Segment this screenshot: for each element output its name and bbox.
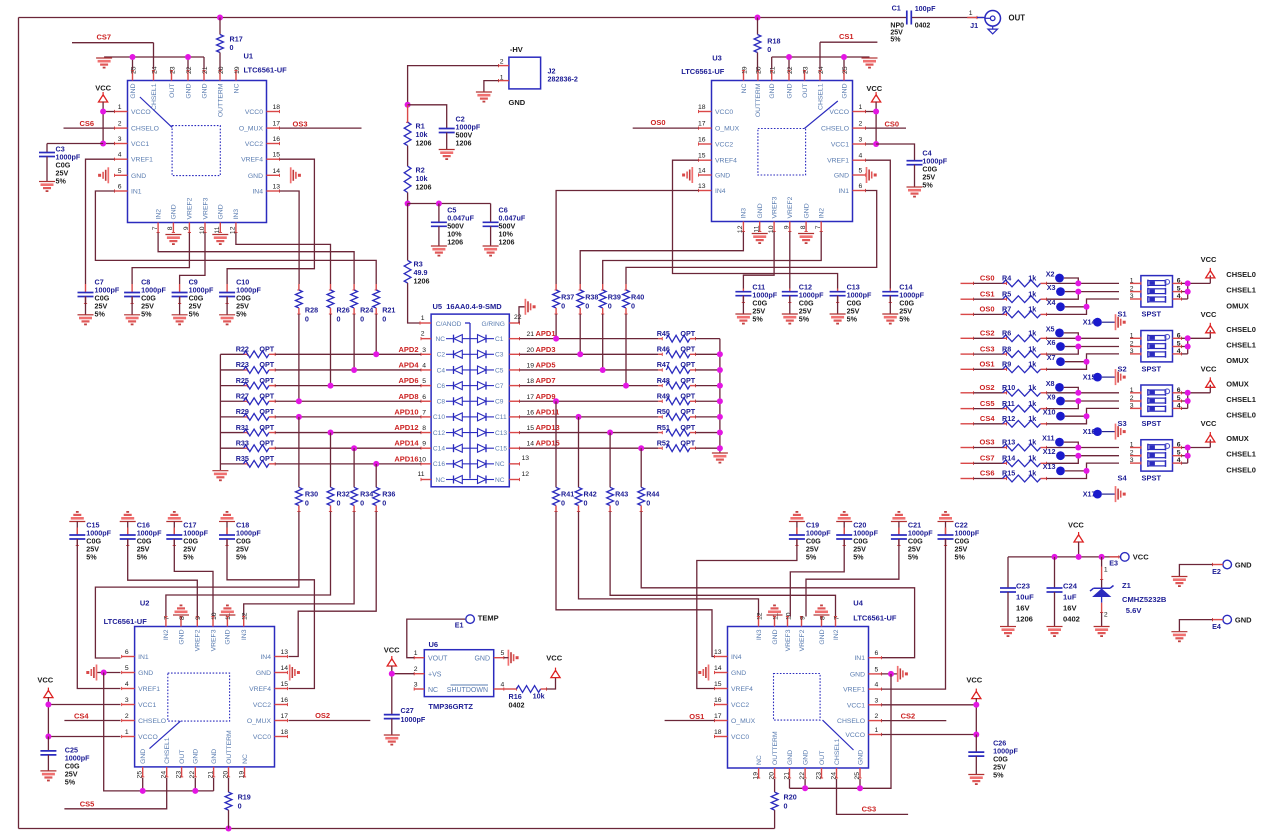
svg-text:22: 22 (186, 66, 193, 74)
svg-text:CHSEL0: CHSEL0 (1226, 465, 1256, 474)
wire U3 IN3 to R38 (580, 232, 743, 285)
svg-text:R43: R43 (615, 490, 628, 499)
svg-text:15: 15 (281, 681, 289, 688)
resistor R4 1k (961, 282, 974, 284)
svg-text:X13: X13 (1043, 462, 1056, 471)
wire U1 IN4 to R28 (280, 191, 300, 284)
svg-text:R34: R34 (360, 490, 373, 499)
svg-text:19: 19 (527, 362, 535, 369)
capacitor C25 (47, 737, 49, 751)
resistor R36 (373, 487, 380, 505)
svg-text:IN4: IN4 (731, 654, 742, 661)
svg-text:OUT: OUT (819, 751, 826, 765)
node junction bus APD11 (717, 414, 723, 420)
svg-text:18: 18 (698, 104, 706, 111)
svg-text:IN4: IN4 (260, 654, 271, 661)
svg-text:SPST: SPST (1142, 364, 1162, 373)
resistor R3 (407, 204, 409, 261)
svg-text:21: 21 (527, 331, 535, 338)
svg-text:CHSEL0: CHSEL0 (1226, 411, 1256, 420)
node junction U1 pin3 (100, 141, 106, 147)
svg-text:VCC0: VCC0 (715, 109, 733, 116)
resistor R33 OPT (220, 447, 243, 449)
svg-text:1k: 1k (1028, 469, 1036, 478)
svg-text:15: 15 (527, 425, 535, 432)
ground U2 pin8 (173, 614, 189, 616)
svg-text:2: 2 (118, 121, 122, 128)
svg-text:24: 24 (151, 66, 158, 74)
svg-text:GND: GND (834, 173, 849, 180)
svg-text:TMP36GRTZ: TMP36GRTZ (428, 702, 473, 711)
svg-text:IN2: IN2 (819, 208, 826, 219)
svg-text:R51: R51 (657, 423, 670, 432)
node junction APD5 (600, 367, 606, 373)
wire U1 VREF4 to C10 (227, 159, 314, 284)
node junction U4 pin1 VCC (973, 732, 979, 738)
wire R34 bottom to U2 IN3 (244, 512, 354, 617)
svg-text:GND: GND (802, 750, 809, 765)
svg-text:IN4: IN4 (715, 188, 726, 195)
svg-text:GND: GND (248, 173, 263, 180)
resistor R28 (298, 284, 300, 290)
svg-text:25: 25 (137, 771, 144, 779)
resistor R8 1k (961, 353, 974, 355)
svg-text:NP0: NP0 (890, 22, 904, 29)
resistor R27 OPT (220, 400, 243, 402)
svg-text:IN4: IN4 (252, 189, 263, 196)
svg-text:R31: R31 (236, 423, 249, 432)
resistor R6 1k (961, 337, 974, 339)
svg-text:0: 0 (305, 499, 309, 508)
svg-text:CS7: CS7 (980, 454, 995, 463)
svg-text:VCC: VCC (37, 676, 53, 685)
svg-text:1206: 1206 (456, 139, 472, 148)
svg-text:X8: X8 (1046, 379, 1055, 388)
wire U4 bottom GND net (790, 674, 892, 788)
svg-text:R38: R38 (585, 293, 598, 302)
svg-text:C15: C15 (495, 446, 507, 453)
ground E4 (1171, 631, 1187, 633)
ground C27 (384, 734, 400, 736)
diode array U5 right pin 18 (509, 369, 519, 371)
svg-text:1k: 1k (1028, 344, 1036, 353)
svg-text:1k: 1k (1028, 305, 1036, 314)
svg-text:5%: 5% (853, 553, 864, 562)
node junction U6 pin2 (389, 671, 395, 677)
resistor R34 (351, 487, 358, 505)
svg-text:25: 25 (130, 66, 137, 74)
ground U4 pin5 (897, 666, 899, 682)
svg-text:5%: 5% (56, 177, 67, 186)
wire R40 to APD7 row (625, 314, 627, 386)
ground C17 (166, 521, 182, 523)
svg-text:6: 6 (875, 650, 879, 657)
resistor R18 (757, 18, 759, 35)
svg-text:C16: C16 (433, 461, 445, 468)
wire right APD ground bus (719, 339, 721, 453)
wire R44 bottom to U4 IN1 (641, 512, 914, 658)
svg-text:GND: GND (715, 173, 730, 180)
node junction APD10 (296, 414, 302, 420)
resistor R14 1k (961, 462, 974, 464)
svg-text:0: 0 (615, 499, 619, 508)
svg-text:R12: R12 (1002, 414, 1015, 423)
svg-text:OPT: OPT (680, 407, 695, 416)
svg-text:C9: C9 (495, 399, 504, 406)
svg-text:25: 25 (854, 772, 861, 780)
wire U1 top GND net (104, 56, 204, 58)
wire CS0 to S1 pin1 (1047, 282, 1120, 284)
svg-text:VCC2: VCC2 (245, 141, 263, 148)
svg-text:7: 7 (422, 409, 426, 416)
wire CS6 to S4 pin3 (1047, 463, 1120, 478)
svg-text:4: 4 (118, 152, 122, 159)
capacitor C6 (490, 204, 492, 223)
node junction U2 pin22 (192, 788, 198, 794)
capacitor C10 (226, 284, 228, 293)
svg-text:+VS: +VS (428, 672, 442, 679)
ground C2 (439, 149, 455, 151)
wire U1 VREF3 to C9 (180, 233, 205, 285)
svg-text:0: 0 (585, 302, 589, 311)
svg-text:R15: R15 (1002, 469, 1015, 478)
wire bottom rail OUTTERM (19, 828, 775, 830)
resistor R1 (407, 105, 409, 123)
svg-text:OPT: OPT (259, 438, 274, 447)
svg-text:CMHZ5232B: CMHZ5232B (1122, 595, 1167, 604)
op-amp U1 LTC6561-UF box (128, 81, 267, 223)
svg-text:O_MUX: O_MUX (731, 718, 756, 725)
node junction bus APD9 (717, 398, 723, 404)
resistor R7 1k (961, 313, 974, 315)
svg-text:18: 18 (273, 104, 281, 111)
svg-text:5%: 5% (908, 553, 919, 562)
svg-text:VCC1: VCC1 (138, 702, 156, 709)
svg-text:5: 5 (875, 666, 879, 673)
svg-text:GND: GND (509, 98, 526, 107)
svg-text:VCC0: VCC0 (253, 734, 271, 741)
svg-text:5%: 5% (847, 315, 858, 324)
wire S4 common to VCC (1182, 447, 1211, 449)
svg-text:13: 13 (522, 455, 530, 462)
svg-text:6: 6 (118, 184, 122, 191)
svg-text:OS3: OS3 (979, 438, 994, 447)
svg-text:3: 3 (125, 697, 129, 704)
svg-text:OPT: OPT (259, 407, 274, 416)
svg-text:VCCO: VCCO (131, 109, 151, 116)
svg-text:U6: U6 (429, 640, 439, 649)
svg-text:OUT: OUT (169, 84, 176, 98)
node junction U3 pin22 (786, 54, 792, 60)
wire OS3 from U1 pin17 (280, 127, 362, 129)
wire U2 bottom GND net (104, 673, 214, 791)
svg-text:2: 2 (1104, 612, 1108, 619)
svg-text:23: 23 (175, 771, 182, 779)
op-amp U4 pins (758, 617, 760, 627)
svg-text:0: 0 (337, 315, 341, 324)
svg-text:GND: GND (769, 83, 776, 98)
svg-text:OMUX: OMUX (1226, 356, 1249, 365)
svg-text:5%: 5% (236, 553, 247, 562)
wire U4 pin5 GND net (882, 673, 898, 675)
svg-text:16: 16 (273, 136, 281, 143)
svg-text:VREF1: VREF1 (138, 686, 160, 693)
svg-text:VREF1: VREF1 (843, 687, 865, 694)
svg-text:R6: R6 (1002, 329, 1011, 338)
svg-text:CHSEL1: CHSEL1 (1226, 395, 1256, 404)
svg-text:4: 4 (501, 682, 505, 689)
svg-text:5%: 5% (236, 310, 247, 319)
svg-text:VCC: VCC (1201, 255, 1217, 264)
svg-text:0: 0 (561, 499, 565, 508)
diode array U5 left pin 10 (421, 463, 431, 465)
svg-text:X5: X5 (1046, 324, 1055, 333)
svg-text:C12: C12 (433, 430, 445, 437)
node junction APD13 (607, 430, 613, 436)
svg-text:C24: C24 (1063, 582, 1078, 591)
svg-text:VCC0: VCC0 (731, 734, 749, 741)
wire U3 VREF3 to C11 (743, 232, 774, 289)
wire U1 IN3 to R26 (236, 233, 331, 285)
node junction Z1 (1099, 554, 1105, 560)
node junction pin22 (185, 54, 191, 60)
svg-text:VCCO: VCCO (138, 734, 158, 741)
svg-text:1206: 1206 (416, 139, 432, 148)
svg-text:11: 11 (417, 471, 424, 478)
svg-text:C27: C27 (401, 706, 414, 715)
svg-text:GND: GND (131, 173, 146, 180)
svg-text:C10: C10 (433, 414, 445, 421)
svg-text:OS0: OS0 (979, 305, 994, 314)
diode array U5 left pin 9 (421, 447, 431, 449)
capacitor C24 (1054, 557, 1056, 588)
svg-text:16: 16 (698, 137, 706, 144)
wire R24 to APD4 row (353, 314, 355, 370)
svg-text:GND: GND (1235, 615, 1252, 624)
svg-text:U2: U2 (140, 599, 150, 608)
capacitor C4 (876, 144, 914, 161)
svg-text:2: 2 (125, 713, 129, 720)
svg-text:VREF3: VREF3 (202, 197, 209, 219)
svg-text:X7: X7 (1047, 353, 1056, 362)
svg-text:GND: GND (850, 671, 865, 678)
svg-text:5%: 5% (86, 553, 97, 562)
svg-text:10: 10 (211, 612, 218, 620)
svg-text:17: 17 (698, 121, 706, 128)
svg-text:CS1: CS1 (839, 32, 854, 41)
wire J2 pin1 to ground (499, 80, 509, 82)
svg-text:21: 21 (770, 66, 777, 74)
svg-text:X6: X6 (1047, 338, 1056, 347)
svg-text:CHSELO: CHSELO (837, 718, 865, 725)
svg-text:5%: 5% (806, 553, 817, 562)
svg-text:IN1: IN1 (854, 655, 865, 662)
wire R32 bottom to U2 IN2 (166, 512, 331, 617)
ground U1 pin8 (165, 234, 181, 236)
svg-text:23: 23 (815, 772, 822, 780)
node junction R1 top (405, 102, 411, 108)
svg-text:GND: GND (130, 83, 137, 98)
svg-text:R25: R25 (236, 376, 249, 385)
node junction R2 bottom (405, 201, 411, 207)
resistor R52 OPT (658, 447, 662, 449)
svg-text:17: 17 (714, 713, 722, 720)
point E1 TEMP (407, 619, 466, 658)
diode array U5 left pin 3 (421, 353, 431, 355)
resistor R26 (330, 284, 332, 290)
svg-text:G/RING: G/RING (481, 321, 504, 328)
svg-text:1206: 1206 (1016, 615, 1033, 624)
svg-text:IN3: IN3 (241, 629, 248, 640)
node junction R17 top (217, 15, 223, 21)
ground C19 (789, 521, 805, 523)
resistor R47 OPT (658, 369, 662, 371)
svg-text:SPST: SPST (1142, 309, 1162, 318)
svg-text:R50: R50 (657, 407, 670, 416)
svg-text:5%: 5% (65, 778, 76, 787)
ground C22 (938, 521, 954, 523)
resistor R15 1k (961, 478, 974, 480)
ground U2 pin11 (219, 614, 235, 616)
svg-text:VCC2: VCC2 (715, 142, 733, 149)
node junction U3 pin3 (873, 141, 879, 147)
wire R30 to APD10 row (298, 417, 300, 487)
ground U3 pin5 (866, 167, 868, 183)
svg-text:APD1: APD1 (536, 329, 556, 338)
power rail VCC E3 (1008, 556, 1121, 558)
capacitor C9 (179, 284, 181, 293)
ground C25 (40, 770, 56, 772)
wire S2 common to VCC (1182, 337, 1211, 339)
wire CS5 to U2 pin24 (64, 778, 166, 809)
svg-text:LTC6561-UF: LTC6561-UF (244, 66, 288, 75)
wire R42 to APD11 row (578, 417, 580, 487)
svg-text:1k: 1k (1028, 383, 1036, 392)
wire APD row APD2 (275, 353, 421, 355)
svg-text:5: 5 (118, 168, 122, 175)
svg-text:OUTTERM: OUTTERM (755, 83, 762, 117)
svg-text:14: 14 (273, 168, 281, 175)
svg-text:5: 5 (422, 378, 426, 385)
capacitor C7 (85, 284, 87, 293)
svg-text:19: 19 (234, 66, 241, 74)
svg-text:1: 1 (421, 315, 425, 322)
svg-text:0: 0 (646, 499, 650, 508)
wire C20 to U4 VREF3 (790, 539, 844, 617)
svg-text:5%: 5% (799, 315, 810, 324)
switch S4 SPST (1141, 440, 1173, 471)
svg-text:24: 24 (818, 66, 825, 74)
svg-text:GND: GND (140, 749, 147, 764)
svg-text:1: 1 (125, 729, 129, 736)
wire APD row APD14 (275, 447, 421, 449)
svg-text:NC: NC (756, 755, 763, 765)
node junction APD11 (576, 414, 582, 420)
resistor R50 OPT (658, 416, 662, 418)
svg-text:C14: C14 (433, 446, 445, 453)
ground left APD bus (212, 470, 228, 472)
svg-text:16: 16 (527, 409, 535, 416)
svg-text:0: 0 (784, 802, 788, 811)
power VCC S4 (1209, 440, 1211, 448)
svg-text:CS0: CS0 (980, 274, 995, 283)
svg-text:1206: 1206 (447, 238, 463, 247)
svg-text:O_MUX: O_MUX (715, 126, 740, 133)
svg-text:OPT: OPT (680, 391, 695, 400)
wire R34 to APD14 row (353, 448, 355, 487)
svg-text:NC: NC (435, 336, 445, 343)
svg-text:5%: 5% (137, 553, 148, 562)
ground C9 (172, 314, 188, 316)
svg-text:U3: U3 (712, 54, 722, 63)
svg-text:R19: R19 (238, 793, 251, 802)
svg-text:APD7: APD7 (536, 376, 556, 385)
resistor R23 OPT (220, 369, 243, 371)
capacitor C19 (796, 522, 798, 536)
svg-text:VREF3: VREF3 (771, 196, 778, 218)
svg-text:0: 0 (631, 302, 635, 311)
svg-text:CS5: CS5 (80, 800, 95, 809)
ground U1 pin5 (107, 167, 109, 183)
svg-text:VCCO: VCCO (829, 109, 849, 116)
svg-text:10: 10 (418, 456, 426, 463)
svg-text:CS4: CS4 (74, 712, 89, 721)
node junction R18 top (755, 15, 761, 21)
node junction bus APD15 (717, 445, 723, 451)
svg-text:E3: E3 (1109, 559, 1118, 568)
wire OS2 from U2 pin17 (289, 720, 371, 722)
svg-text:1000pF: 1000pF (401, 715, 426, 724)
diode array U5 left pin 7 (421, 416, 431, 418)
svg-text:CHSELO: CHSELO (131, 126, 159, 133)
svg-text:E1: E1 (455, 621, 464, 630)
resistor R13 1k (961, 447, 974, 449)
wire U3 VREF1 to C14 (866, 160, 891, 288)
svg-text:5%: 5% (189, 310, 200, 319)
svg-text:R23: R23 (236, 360, 249, 369)
svg-text:NC: NC (435, 477, 445, 484)
svg-text:R44: R44 (646, 490, 659, 499)
svg-text:10k: 10k (533, 692, 545, 701)
svg-text:8: 8 (167, 226, 174, 230)
svg-text:CS6: CS6 (980, 469, 995, 478)
svg-text:5.6V: 5.6V (1126, 606, 1143, 615)
svg-text:R30: R30 (305, 490, 318, 499)
resistor R12 1k (961, 423, 974, 425)
svg-text:0: 0 (584, 499, 588, 508)
resistor R25 OPT (220, 385, 243, 387)
capacitor C1 (906, 11, 908, 25)
svg-text:14: 14 (714, 665, 722, 672)
wire CS1 to S1 pin2 (1047, 292, 1120, 300)
resistor R2 (407, 146, 409, 167)
node junction U2 pin1 (45, 734, 51, 740)
svg-text:APD4: APD4 (398, 360, 419, 369)
svg-text:VCC: VCC (1201, 364, 1217, 373)
svg-text:0: 0 (238, 802, 242, 811)
wire CS2 from U4 pin2 (882, 720, 947, 722)
svg-text:Z1: Z1 (1122, 581, 1132, 590)
wire CS7 to U1 pin 24 (72, 42, 154, 44)
wire R43 bottom to U4 IN2 (610, 512, 835, 617)
svg-text:1k: 1k (1028, 289, 1036, 298)
svg-text:NC: NC (495, 477, 505, 484)
svg-text:24: 24 (161, 771, 168, 779)
wire U3 top GND net (772, 56, 870, 58)
diode array U5 right pin 16 (509, 400, 519, 402)
svg-text:R5: R5 (1002, 289, 1011, 298)
svg-text:20: 20 (218, 66, 225, 74)
